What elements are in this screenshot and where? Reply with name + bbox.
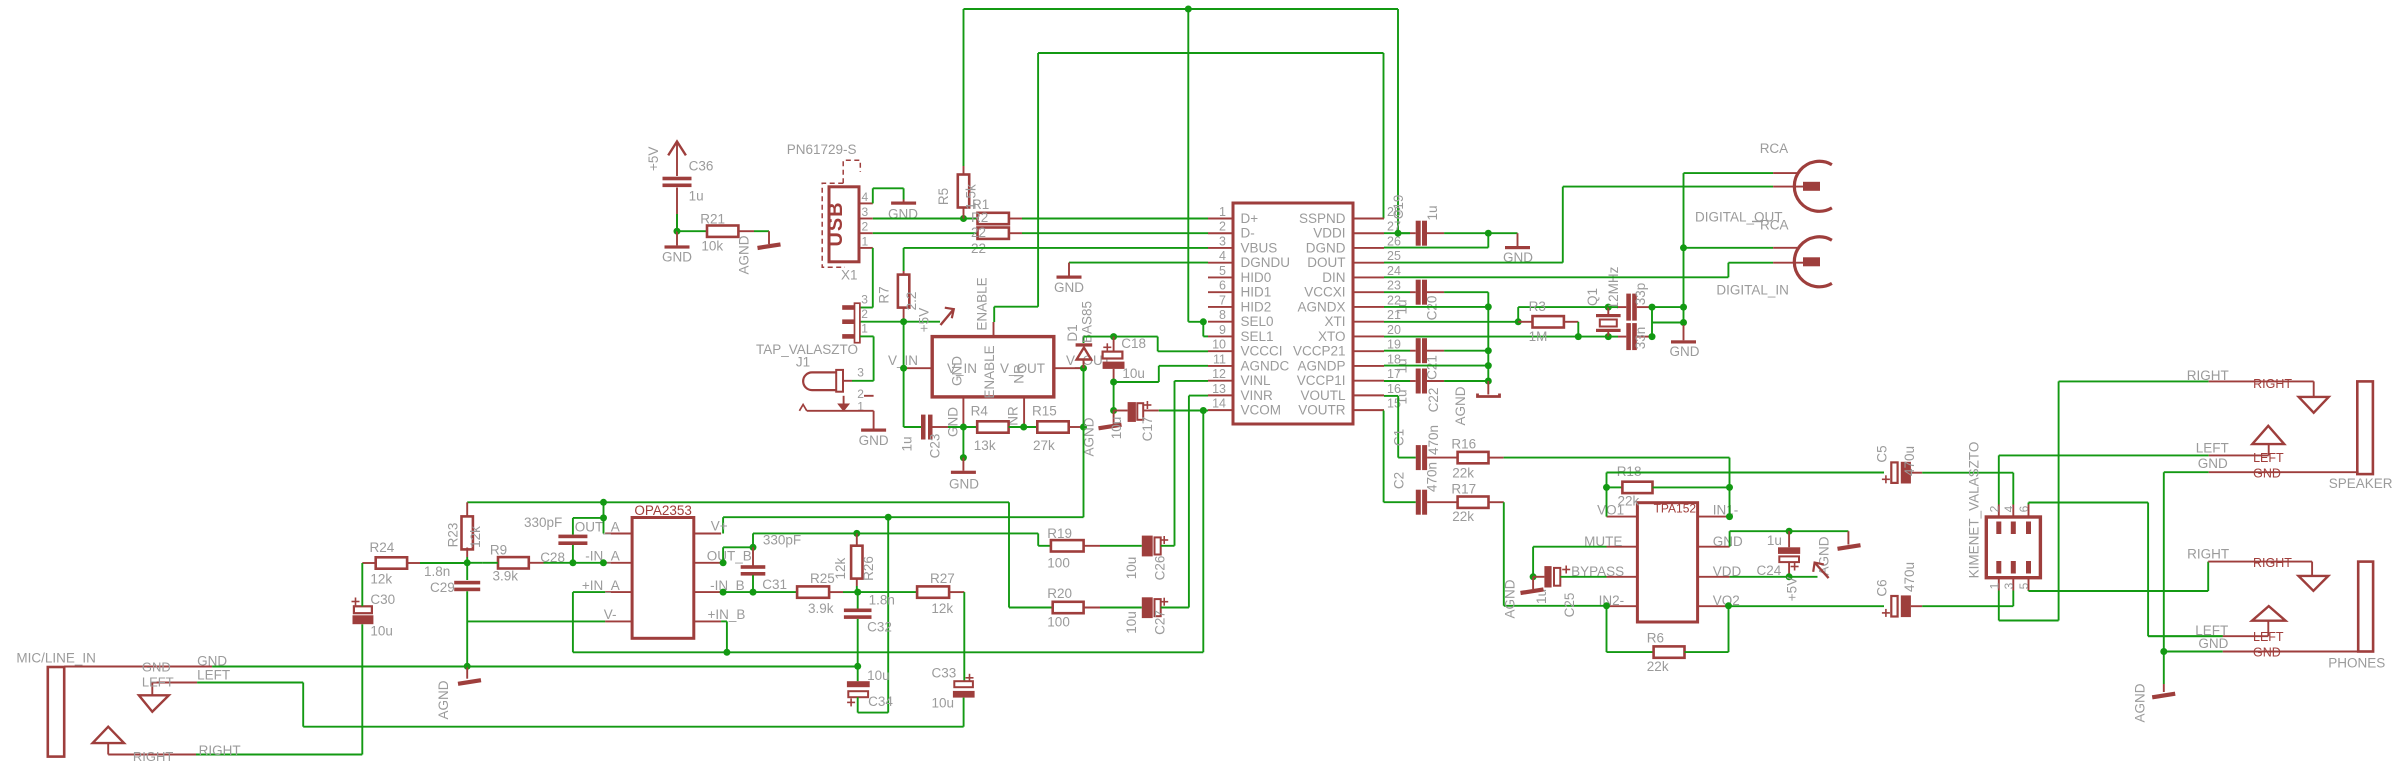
svg-text:12k: 12k (931, 601, 953, 616)
svg-text:OUT_B: OUT_B (707, 549, 752, 564)
svg-text:R25: R25 (810, 571, 835, 586)
svg-text:GND: GND (142, 659, 171, 674)
svg-text:1u: 1u (1767, 533, 1782, 548)
svg-text:R16: R16 (1451, 437, 1476, 452)
svg-text:VBUS: VBUS (1241, 240, 1278, 255)
svg-text:10u: 10u (867, 668, 890, 683)
svg-text:GND: GND (197, 653, 227, 668)
svg-text:GND: GND (1670, 344, 1700, 359)
svg-text:IN1-: IN1- (1713, 503, 1739, 518)
svg-text:1.8n: 1.8n (424, 564, 450, 579)
svg-text:VOUTR: VOUTR (1298, 403, 1346, 418)
svg-text:C33: C33 (932, 665, 957, 680)
svg-text:VINR: VINR (1241, 388, 1274, 403)
svg-text:C34: C34 (868, 694, 893, 709)
svg-text:GND: GND (2198, 456, 2228, 471)
svg-text:C22: C22 (1426, 388, 1441, 413)
svg-text:27k: 27k (1033, 438, 1055, 453)
svg-text:2: 2 (861, 307, 868, 321)
svg-text:4: 4 (1219, 249, 1226, 263)
svg-text:2: 2 (1219, 220, 1226, 234)
svg-text:7: 7 (1219, 293, 1226, 307)
svg-text:C27: C27 (1153, 610, 1168, 635)
svg-text:-IN_B: -IN_B (710, 578, 745, 593)
svg-text:+5V: +5V (646, 147, 661, 171)
svg-text:8: 8 (1219, 308, 1226, 322)
svg-text:12MHz: 12MHz (1606, 266, 1621, 309)
svg-text:R21: R21 (700, 212, 725, 227)
svg-text:9: 9 (1219, 323, 1226, 337)
svg-text:+IN_B: +IN_B (708, 607, 746, 622)
svg-text:DGND: DGND (1306, 240, 1346, 255)
svg-text:RIGHT: RIGHT (199, 743, 241, 758)
svg-text:R6: R6 (1647, 631, 1664, 646)
svg-text:SEL1: SEL1 (1241, 329, 1274, 344)
svg-text:3: 3 (861, 293, 868, 307)
svg-text:V+: V+ (711, 518, 728, 533)
svg-text:14: 14 (1212, 397, 1226, 411)
svg-text:33n: 33n (1633, 327, 1648, 350)
svg-text:LEFT: LEFT (2253, 630, 2284, 644)
svg-text:Q1: Q1 (1585, 288, 1600, 306)
svg-text:R18: R18 (1617, 464, 1642, 479)
svg-text:C2: C2 (1391, 472, 1406, 489)
svg-text:C36: C36 (689, 158, 714, 173)
svg-text:1.5k: 1.5k (964, 184, 979, 210)
svg-text:SEL0: SEL0 (1241, 314, 1274, 329)
svg-text:LEFT: LEFT (2196, 440, 2229, 455)
svg-text:R20: R20 (1047, 586, 1072, 601)
svg-text:470u: 470u (1902, 562, 1917, 592)
svg-text:22k: 22k (1647, 659, 1669, 674)
svg-text:VDDI: VDDI (1313, 226, 1345, 241)
svg-text:470u: 470u (1902, 446, 1917, 476)
svg-text:R9: R9 (490, 543, 507, 558)
svg-text:X1: X1 (841, 268, 858, 283)
svg-text:R4: R4 (971, 404, 989, 419)
svg-text:AGND: AGND (2133, 683, 2148, 722)
svg-text:12k: 12k (370, 571, 392, 586)
svg-text:C26: C26 (1153, 556, 1168, 581)
svg-text:20: 20 (1387, 323, 1401, 337)
svg-text:GND: GND (1713, 534, 1743, 549)
svg-text:1M: 1M (1529, 329, 1548, 344)
svg-text:2.2: 2.2 (904, 292, 919, 311)
svg-text:AGND: AGND (736, 235, 751, 274)
svg-text:33p: 33p (1633, 283, 1648, 306)
svg-text:R19: R19 (1047, 526, 1072, 541)
svg-text:10k: 10k (701, 238, 723, 253)
svg-text:AGND: AGND (436, 680, 451, 719)
svg-text:DOUT: DOUT (1307, 255, 1345, 270)
svg-text:RCA: RCA (1760, 218, 1789, 233)
svg-text:10u: 10u (1109, 417, 1124, 440)
svg-text:4: 4 (2002, 505, 2016, 512)
svg-text:XTO: XTO (1318, 329, 1346, 344)
svg-text:1: 1 (862, 234, 869, 248)
svg-text:22: 22 (971, 225, 986, 240)
svg-text:HID2: HID2 (1241, 299, 1272, 314)
svg-text:RIGHT: RIGHT (2253, 556, 2292, 570)
svg-text:5: 5 (1219, 264, 1226, 278)
svg-text:AGNDC: AGNDC (1241, 358, 1290, 373)
svg-text:USB: USB (825, 201, 847, 246)
svg-text:C18: C18 (1121, 336, 1146, 351)
svg-text:R7: R7 (877, 286, 892, 303)
svg-text:C20: C20 (1424, 296, 1439, 321)
svg-text:25: 25 (1387, 249, 1401, 263)
svg-text:KIMENET_VALASZTO: KIMENET_VALASZTO (1967, 442, 1982, 579)
svg-text:C31: C31 (762, 577, 787, 592)
svg-text:GND: GND (949, 477, 979, 492)
svg-text:RCA: RCA (1760, 141, 1789, 156)
svg-text:GND: GND (859, 433, 889, 448)
svg-text:3: 3 (2002, 582, 2016, 589)
svg-text:TPA152: TPA152 (1654, 502, 1697, 516)
svg-text:R15: R15 (1032, 404, 1057, 419)
svg-text:3: 3 (862, 205, 869, 219)
svg-text:GND: GND (950, 356, 965, 386)
svg-text:C29: C29 (430, 580, 455, 595)
svg-text:LEFT: LEFT (197, 668, 230, 683)
svg-text:13: 13 (1212, 382, 1226, 396)
svg-text:13k: 13k (974, 438, 996, 453)
svg-text:R23: R23 (446, 523, 461, 548)
svg-text:OUT_A: OUT_A (575, 519, 620, 534)
svg-text:OPA2353: OPA2353 (634, 503, 692, 518)
svg-text:ENABLE: ENABLE (975, 277, 990, 330)
svg-text:R27: R27 (930, 571, 955, 586)
svg-text:GND: GND (2198, 636, 2228, 651)
svg-text:C17: C17 (1140, 417, 1155, 442)
svg-text:330pF: 330pF (763, 532, 801, 547)
svg-text:DIGITAL_IN: DIGITAL_IN (1716, 283, 1789, 298)
svg-text:1: 1 (1987, 582, 2001, 589)
svg-text:VCCCI: VCCCI (1241, 344, 1283, 359)
svg-text:NR: NR (1012, 364, 1027, 384)
svg-text:R3: R3 (1529, 299, 1546, 314)
svg-text:24: 24 (1387, 264, 1401, 278)
svg-text:10u: 10u (1124, 557, 1139, 580)
svg-text:PN61729-S: PN61729-S (787, 142, 857, 157)
svg-text:AGNDX: AGNDX (1297, 299, 1345, 314)
svg-text:100: 100 (1047, 615, 1070, 630)
svg-text:22k: 22k (1452, 466, 1474, 481)
svg-text:1u: 1u (689, 188, 704, 203)
svg-text:VINL: VINL (1241, 373, 1272, 388)
svg-text:+5V: +5V (917, 308, 932, 332)
svg-text:1: 1 (1219, 205, 1226, 219)
svg-text:10: 10 (1212, 338, 1226, 352)
svg-text:1u: 1u (900, 436, 915, 451)
svg-text:470n: 470n (1426, 425, 1441, 455)
svg-text:6: 6 (2017, 505, 2031, 512)
svg-text:3.9k: 3.9k (493, 569, 519, 584)
svg-text:PHONES: PHONES (2328, 656, 2385, 671)
svg-text:D1: D1 (1065, 324, 1080, 341)
svg-text:VCCXI: VCCXI (1304, 285, 1345, 300)
svg-text:IN2-: IN2- (1599, 593, 1625, 608)
svg-text:23: 23 (1387, 279, 1401, 293)
svg-text:C30: C30 (370, 592, 395, 607)
svg-text:GND: GND (1054, 280, 1084, 295)
svg-text:SPEAKER: SPEAKER (2329, 476, 2393, 491)
svg-text:GND: GND (2253, 467, 2281, 481)
svg-text:10u: 10u (1122, 366, 1145, 381)
svg-text:470n: 470n (1425, 462, 1440, 492)
svg-text:12k: 12k (468, 526, 483, 548)
svg-text:GND: GND (946, 407, 961, 437)
svg-text:MIC/LINE_IN: MIC/LINE_IN (16, 651, 96, 666)
svg-text:VCCP1I: VCCP1I (1297, 373, 1346, 388)
svg-text:AGND: AGND (1453, 386, 1468, 425)
svg-text:DGNDU: DGNDU (1241, 255, 1291, 270)
svg-text:V-: V- (604, 607, 617, 622)
svg-text:VCOM: VCOM (1241, 403, 1282, 418)
svg-text:XTI: XTI (1324, 314, 1345, 329)
svg-text:RIGHT: RIGHT (2253, 377, 2292, 391)
svg-text:R2: R2 (971, 210, 988, 225)
svg-text:4: 4 (862, 190, 869, 204)
svg-text:AGND: AGND (1503, 579, 1518, 618)
svg-text:3: 3 (1219, 234, 1226, 248)
svg-text:HID1: HID1 (1241, 285, 1272, 300)
svg-text:11: 11 (1213, 352, 1226, 366)
svg-text:2: 2 (1987, 505, 2001, 512)
svg-text:C23: C23 (928, 434, 943, 459)
svg-text:1: 1 (861, 322, 868, 336)
svg-text:R26: R26 (861, 556, 876, 581)
svg-text:LEFT: LEFT (142, 674, 174, 689)
svg-text:12k: 12k (833, 557, 848, 579)
svg-text:19: 19 (1387, 338, 1401, 352)
svg-text:10u: 10u (1124, 611, 1139, 634)
svg-text:5: 5 (2017, 582, 2031, 589)
svg-text:ENABLE: ENABLE (982, 345, 997, 398)
svg-text:C1: C1 (1391, 429, 1406, 446)
svg-text:R5: R5 (936, 188, 951, 205)
svg-text:GND: GND (662, 249, 692, 264)
svg-text:VOUTL: VOUTL (1300, 388, 1346, 403)
svg-text:2: 2 (862, 220, 869, 234)
svg-text:C32: C32 (867, 619, 892, 634)
svg-text:22k: 22k (1618, 493, 1640, 508)
svg-text:D+: D+ (1241, 211, 1259, 226)
svg-text:+IN_A: +IN_A (582, 578, 620, 593)
svg-text:22k: 22k (1452, 509, 1474, 524)
svg-text:1u: 1u (1425, 205, 1440, 220)
svg-text:3.9k: 3.9k (808, 601, 834, 616)
svg-text:HID0: HID0 (1241, 270, 1272, 285)
svg-text:RIGHT: RIGHT (2187, 368, 2229, 383)
svg-text:R24: R24 (370, 540, 395, 555)
svg-text:3: 3 (857, 366, 864, 380)
svg-text:J1: J1 (796, 355, 810, 370)
svg-text:330pF: 330pF (524, 515, 562, 530)
svg-text:RIGHT: RIGHT (133, 749, 174, 764)
svg-text:RIGHT: RIGHT (2187, 547, 2229, 562)
svg-text:C6: C6 (1875, 579, 1890, 596)
svg-text:+5V: +5V (1785, 577, 1800, 601)
svg-text:10u: 10u (932, 696, 955, 711)
svg-text:1u: 1u (1394, 389, 1409, 404)
svg-text:C5: C5 (1875, 445, 1890, 462)
svg-text:10u: 10u (370, 624, 393, 639)
svg-text:AGND: AGND (1817, 536, 1832, 575)
svg-text:C19: C19 (1391, 195, 1406, 220)
svg-text:D-: D- (1241, 226, 1255, 241)
svg-text:C25: C25 (1562, 593, 1577, 618)
svg-text:LEFT: LEFT (2253, 451, 2284, 465)
svg-text:100: 100 (1047, 555, 1070, 570)
svg-text:12: 12 (1212, 367, 1226, 381)
svg-text:R17: R17 (1451, 482, 1476, 497)
svg-text:6: 6 (1219, 279, 1226, 293)
svg-text:DIN: DIN (1322, 270, 1345, 285)
svg-text:SSPND: SSPND (1299, 211, 1346, 226)
svg-text:AGNDP: AGNDP (1297, 358, 1345, 373)
svg-text:GND: GND (2253, 645, 2281, 659)
svg-text:1.8n: 1.8n (869, 592, 895, 607)
svg-text:VCCP21: VCCP21 (1293, 344, 1346, 359)
